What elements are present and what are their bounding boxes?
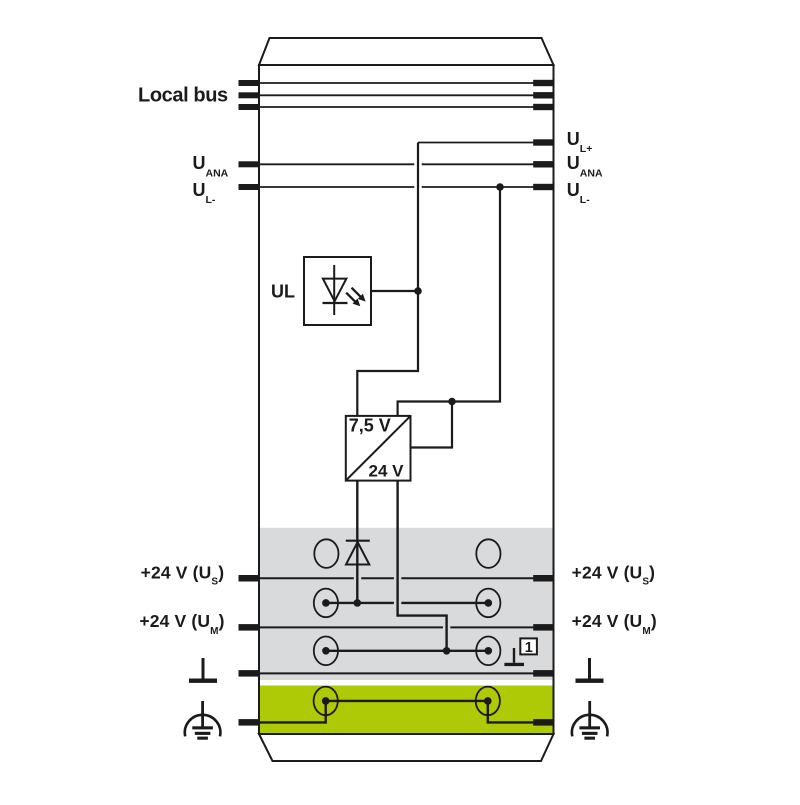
node +24V US line xyxy=(260,577,553,579)
contact dot earth left xyxy=(322,697,330,705)
label UL xyxy=(271,282,295,302)
svg-text:24 V: 24 V xyxy=(369,461,405,480)
LED emission arrow 2 xyxy=(346,293,360,307)
node GND line xyxy=(260,672,553,674)
protective earth symbol left xyxy=(185,701,221,740)
terminal oval row1 left xyxy=(314,539,338,568)
label UANA left xyxy=(193,153,229,180)
wire UL- vertical drop to converter xyxy=(398,187,500,416)
label +24V US left xyxy=(141,562,225,587)
label Local bus xyxy=(138,85,228,107)
wire UL box stub xyxy=(371,290,418,292)
footnote marker 1 xyxy=(520,638,537,655)
wire row2 bridge xyxy=(326,602,488,604)
contact dot row3 right xyxy=(485,647,493,655)
junction converter to row3 xyxy=(443,647,451,655)
pin tick +24V US left xyxy=(239,575,260,582)
terminal oval row3 left xyxy=(314,637,338,666)
terminal oval row2 right xyxy=(476,589,500,618)
pin tick earth right xyxy=(533,719,553,726)
pin tick UL+ right xyxy=(533,139,553,145)
wire earth bridge xyxy=(326,700,488,702)
pin tick GND right xyxy=(533,670,553,677)
value label 24 V xyxy=(369,461,405,480)
pin tick +24V UM left xyxy=(239,624,260,631)
svg-text:Local bus: Local bus xyxy=(138,85,228,107)
contact dot row2 right xyxy=(485,599,493,607)
earth section background (green) xyxy=(260,686,553,734)
label UL- left xyxy=(193,180,216,206)
pin tick UL- left xyxy=(239,184,260,190)
module body outline xyxy=(259,65,554,734)
terminal oval row3 right xyxy=(476,637,500,666)
wire UL+ vertical drop xyxy=(357,143,418,416)
wire converter output left (to diode) xyxy=(356,481,358,603)
label +24V UM right xyxy=(572,611,657,637)
label UANA right xyxy=(567,153,603,180)
mini ground symbol at footnote xyxy=(504,648,524,666)
terminal oval earth right xyxy=(476,687,500,716)
pin tick +24V UM right xyxy=(533,624,553,631)
DC/DC converter U1 box xyxy=(346,416,411,481)
label +24V US right xyxy=(572,562,656,587)
pin tick UANA left xyxy=(239,161,260,167)
local bus pin ticks left xyxy=(239,80,260,110)
local bus pin ticks right xyxy=(533,80,553,110)
LED emission arrow 1 xyxy=(352,288,366,302)
junction diode to row2 xyxy=(354,599,362,607)
indicator UL box xyxy=(304,257,371,325)
terminal oval row1 right xyxy=(476,539,500,568)
wire converter output right xyxy=(398,481,447,651)
svg-text:1: 1 xyxy=(525,640,533,656)
pin tick UL- right xyxy=(533,184,553,190)
node UL+ line xyxy=(418,142,553,144)
LED symbol in UL box xyxy=(323,265,348,315)
junction UL wire node xyxy=(414,287,422,295)
contact dot row2 left xyxy=(322,599,330,607)
junction UL- node xyxy=(496,183,504,191)
wire row3 bridge xyxy=(326,650,488,652)
value label 7,5 V xyxy=(349,416,391,436)
local bus line 1 xyxy=(260,82,553,84)
supply section background (gray) xyxy=(260,528,553,680)
pin tick GND left xyxy=(239,670,260,677)
local bus line 3 xyxy=(260,106,553,108)
node UL- line xyxy=(260,186,553,188)
diode D1 xyxy=(346,541,370,565)
terminal oval earth left xyxy=(314,687,338,716)
label +24V UM left xyxy=(139,611,224,637)
protective earth symbol right xyxy=(572,701,608,740)
junction converter feed node xyxy=(448,398,456,406)
ground symbol right xyxy=(576,658,604,683)
contact dot earth right xyxy=(484,697,492,705)
pin tick UANA right xyxy=(533,161,553,167)
module top cover xyxy=(259,38,554,65)
contact dot row3 left xyxy=(322,647,330,655)
terminal oval row2 left xyxy=(314,589,338,618)
wire earth right leg xyxy=(488,701,553,723)
pin tick +24V US right xyxy=(533,575,553,582)
wire branch to converter right side xyxy=(411,402,453,448)
wire earth left leg xyxy=(260,701,326,723)
ground symbol left xyxy=(189,658,217,683)
local bus line 2 xyxy=(260,94,553,96)
label UL- right xyxy=(567,180,590,206)
node +24V UM line xyxy=(260,626,553,628)
svg-text:UL: UL xyxy=(271,282,295,302)
svg-text:7,5 V: 7,5 V xyxy=(349,416,391,436)
node UANA line xyxy=(260,163,553,165)
module bottom cover xyxy=(259,734,554,761)
pin tick earth left xyxy=(239,719,260,726)
label UL+ right xyxy=(567,129,593,155)
